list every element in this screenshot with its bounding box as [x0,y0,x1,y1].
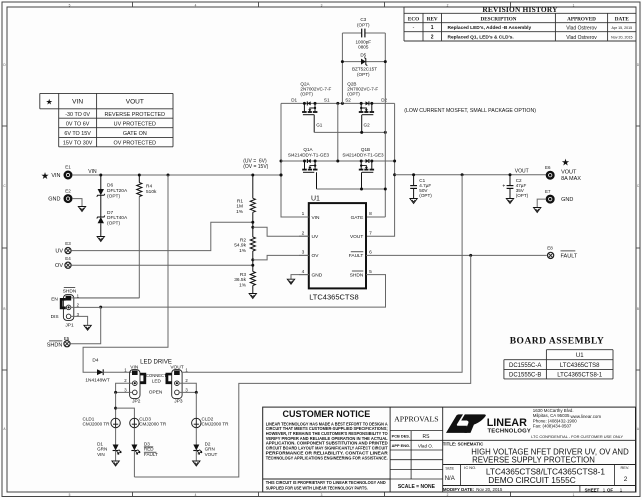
svg-text:IC NO.: IC NO. [464,465,476,470]
wire D1 to ground [115,451,117,462]
svg-text:BOARD ASSEMBLY: BOARD ASSEMBLY [510,337,605,347]
resistor R2 54.9k 1% [234,227,255,265]
revision history table [404,5,636,41]
svg-text:LINEAR: LINEAR [487,417,527,429]
svg-text:2: 2 [302,230,305,236]
svg-text:36.5k: 36.5k [234,277,246,283]
transistor Q1B Si4214DDY [342,147,384,189]
svg-text:Phone: (408)432-1900: Phone: (408)432-1900 [533,418,577,423]
node Q2 source taps [336,102,339,105]
svg-text:S2: S2 [345,97,351,102]
svg-text:GND: GND [312,272,323,278]
transistor Q1A Si4214DDY [288,147,330,189]
ground [84,325,91,330]
terminal E7 GND [545,189,573,203]
svg-text:DFLT40A: DFLT40A [107,215,128,221]
terminal E4 OV [55,256,71,269]
wire gate clamp left vertical [341,33,343,103]
svg-text:VIN: VIN [312,215,321,221]
board assembly table [504,337,613,379]
wire gate clamp right vertical [384,33,386,217]
svg-text:VOUT: VOUT [350,234,363,240]
svg-text:1: 1 [573,493,575,497]
wire VIN to Q1/U1 pin1 [281,103,309,217]
svg-text:TITLE: SCHEMATIC: TITLE: SCHEMATIC [443,442,484,447]
svg-text:DC1555C-B: DC1555C-B [509,372,541,378]
svg-text:3: 3 [321,493,323,497]
svg-text:D3: D3 [144,441,150,446]
svg-text:(OPT): (OPT) [419,193,432,198]
svg-text:LTC CONFIDENTIAL - FOR CUSTOME: LTC CONFIDENTIAL - FOR CUSTOMER USE ONLY [531,434,623,439]
wire OV E4 to divider [71,264,253,266]
svg-text:EN: EN [51,297,58,303]
wire D2 to ground [195,451,197,462]
svg-text:DATE: DATE [615,16,630,22]
ground [112,461,119,466]
svg-text:E7: E7 [545,189,551,194]
svg-text:VOUT: VOUT [515,169,529,175]
svg-text:E3: E3 [65,241,71,246]
svg-text:JP1: JP1 [65,322,74,328]
wire Q2 gate rail G1 G2 [314,131,385,133]
svg-text:DESCRIPTION: DESCRIPTION [480,16,516,22]
svg-text:D2: D2 [205,441,211,446]
node R1/R2 junction [251,221,254,224]
svg-text:Q1B: Q1B [361,147,370,152]
svg-text:G2: G2 [364,122,371,127]
svg-text:OPEN: OPEN [149,390,163,396]
svg-text:UV PROTECTED: UV PROTECTED [114,121,156,127]
svg-text:510k: 510k [146,189,157,195]
svg-text:FAULT: FAULT [144,452,158,457]
svg-text:VOUT: VOUT [170,364,183,370]
svg-text:D1: D1 [97,441,103,446]
svg-text:SHDN: SHDN [47,343,63,349]
svg-text:LTC4365CTS8-1: LTC4365CTS8-1 [557,372,603,378]
resistor R1 1M 1% [236,175,255,227]
svg-text:RED: RED [144,447,154,452]
svg-text:D4: D4 [92,358,98,364]
wire CLD3 to D3 [133,428,135,445]
svg-text:1N4148WT: 1N4148WT [85,377,109,383]
svg-text:DIS: DIS [51,314,59,320]
jumper JP1 [51,288,80,329]
svg-text:SHEET: SHEET [585,488,600,493]
wire D4 to JP2 pin1 [103,371,131,373]
svg-text:1630 McCarthy Blvd.: 1630 McCarthy Blvd. [533,408,574,413]
svg-text:2: 2 [431,35,434,41]
svg-text:(LOW CURRENT MOSFET, SMALL PAC: (LOW CURRENT MOSFET, SMALL PACKAGE OPTIO… [404,108,536,114]
svg-text:SHDN: SHDN [350,272,364,278]
svg-text:VOUT: VOUT [126,99,144,106]
svg-text:ECO: ECO [408,16,419,22]
svg-text:UV: UV [55,249,63,255]
svg-text:Apr 15, 2015: Apr 15, 2015 [612,26,633,30]
wire SHDN pin5 to JP1 [101,275,386,308]
wire JP2 pin3 [116,391,133,393]
svg-text:Nov 20, 2015: Nov 20, 2015 [476,487,503,492]
svg-text:APP ENG.: APP ENG. [392,443,411,448]
wire R4 to JP1 pin1 [74,297,140,299]
svg-text:VIN: VIN [88,169,97,175]
svg-text:5: 5 [69,493,71,497]
svg-text:-30 TO 0V: -30 TO 0V [65,112,90,118]
svg-text:D6: D6 [107,183,113,189]
wire CLD1 to D1 [115,428,117,445]
wire VIN rail [72,174,281,176]
svg-text:RS: RS [423,434,431,440]
svg-text:(OPT): (OPT) [107,220,120,226]
svg-text:SIZE: SIZE [445,466,454,471]
svg-text:N/A: N/A [445,476,455,482]
svg-text:Si4214DDY-T1-GE3: Si4214DDY-T1-GE3 [342,153,384,158]
title [443,442,629,465]
svg-text:LED: LED [152,378,162,383]
svg-text:7: 7 [369,230,372,236]
svg-text:LED DRIVE: LED DRIVE [140,360,172,366]
wire Q1 drain-source rail [281,160,395,162]
wire Q2 rail to VOUT vertical [366,103,395,236]
modify date / sheet [443,487,623,492]
svg-text:FAULT: FAULT [561,253,578,259]
diode D4 1N4148WT [85,358,109,384]
svg-text:LTC4365CTS8: LTC4365CTS8 [309,293,358,302]
svg-text:Replaced Q1, LED's & CLD's.: Replaced Q1, LED's & CLD's. [448,35,514,41]
wire JP1 pin1 [71,297,139,299]
svg-text:R4: R4 [146,184,152,190]
svg-text:CUSTOMER NOTICE: CUSTOMER NOTICE [282,409,370,419]
svg-text:(OPT): (OPT) [516,193,529,198]
terminal E5 SHDN [47,336,70,348]
svg-text:E5: E5 [64,336,70,341]
svg-text:D5: D5 [360,53,366,58]
wire LED VOUT column [195,392,197,418]
svg-text:R3: R3 [240,272,246,278]
wire E5 to SHDN [71,307,101,344]
wire JP2 pin2 [116,383,133,392]
wire LED VIN column [115,392,117,418]
svg-text:CMJ2000 TR: CMJ2000 TR [83,421,111,426]
wire U1 pin4 to ground [291,275,309,280]
customer notice [266,409,389,491]
svg-text:1: 1 [302,211,305,217]
wire CLD2 to D2 [195,428,197,445]
resistor R3 36.5k 1% [234,265,255,293]
capacitor C3 1000pF 0805 [342,17,385,50]
wire D7 to ground [100,223,102,236]
svg-text:TECHNOLOGY: TECHNOLOGY [488,429,532,435]
svg-text:DC1555C-A: DC1555C-A [509,363,541,369]
terminal E2 GND [48,188,71,202]
label CONNECT LED / OPEN [146,373,167,396]
svg-text:E2: E2 [65,188,71,193]
pin labels D1 S1 S2 D2 [291,97,387,102]
svg-text:GRN: GRN [205,447,215,452]
svg-text:1: 1 [431,25,434,31]
svg-text:B: B [637,307,639,311]
svg-text:D7: D7 [107,210,113,216]
diode CLD2 CMJ2000 [192,416,230,427]
svg-text:Vlad Ostrerov: Vlad Ostrerov [566,35,597,41]
svg-text:G1: G1 [316,122,323,127]
svg-text:E4: E4 [65,256,71,261]
wire D6 to D7 [100,195,102,217]
terminal E6 VOUT [545,158,581,182]
svg-text:SHDN: SHDN [63,288,77,294]
svg-text:MODIFY DATE:: MODIFY DATE: [443,487,475,492]
svg-text:PCB DES.: PCB DES. [392,433,410,438]
wire E2 to ground [72,199,82,207]
ground [534,208,541,213]
svg-text:VIN: VIN [51,173,60,179]
svg-text:★: ★ [41,171,50,182]
node Q1 source tap [336,160,339,163]
size / ic no / rev [445,465,630,485]
svg-text:S1: S1 [324,97,330,102]
svg-text:3: 3 [321,3,323,7]
capacitor C2 47uF 35V [502,175,528,199]
note UV OV thresholds [243,159,268,171]
svg-text:OV: OV [312,253,320,259]
LED D2 GRN VOUT [193,441,217,457]
transistor Q2B 2N7002VC-7-F [347,81,378,132]
svg-text:(OPT): (OPT) [107,193,120,199]
svg-text:APPROVED: APPROVED [567,16,596,22]
wire UV E3 to divider [71,222,253,250]
svg-text:(OPT): (OPT) [300,91,313,96]
terminal E1 VIN [41,165,72,182]
diode CLD3 CMJ2000 [130,416,167,427]
wire gate to U1 pin8 [366,216,385,218]
svg-text:(OPT): (OPT) [347,91,360,96]
wire UV tap to pin2 [253,227,309,236]
svg-text:R2: R2 [240,237,246,243]
svg-text:OF: OF [607,488,613,493]
capacitor C1 4.7uF 50V [410,175,432,199]
svg-text:CMJ2000 TR: CMJ2000 TR [202,421,230,426]
svg-text:OV: OV [55,263,63,269]
svg-text:1%: 1% [239,248,247,254]
svg-text:APPROVALS: APPROVALS [394,415,439,424]
svg-text:REV.: REV. [621,465,630,470]
svg-text:5: 5 [369,269,372,275]
approvals [392,415,439,490]
svg-text:REVISION HISTORY: REVISION HISTORY [482,5,558,14]
svg-text:GATE ON: GATE ON [123,131,147,137]
svg-text:U1: U1 [311,195,320,202]
svg-text:E1: E1 [65,165,71,170]
jumper JP2 [124,364,146,404]
diode D7 DFLT40A [97,210,128,227]
svg-text:GRN: GRN [97,447,107,452]
ground [97,237,104,242]
svg-text:Replaced LED's, Added -B Assem: Replaced LED's, Added -B Assembly [448,25,532,31]
wire JP1 pin3 to ground [71,316,88,325]
svg-text:VOUT: VOUT [561,169,577,175]
svg-text:D1: D1 [291,97,297,102]
svg-text:Nov 20, 2015: Nov 20, 2015 [611,35,632,39]
svg-text:CONNECT: CONNECT [146,373,167,378]
ground [78,207,85,212]
svg-text:JP2: JP2 [132,398,141,404]
ground [249,294,256,299]
svg-text:JP3: JP3 [174,398,183,404]
wire JP3 pin2 [180,383,196,392]
svg-text:BZT52C15T: BZT52C15T [352,67,377,72]
LED D1 GRN VIN [97,441,121,457]
op-amp U1 LTC4365CTS8 [299,195,372,301]
svg-text:Milpitas, CA 95035: Milpitas, CA 95035 [533,413,570,418]
wire D3 to FAULT [133,451,135,478]
svg-text:1M: 1M [236,204,243,210]
diode CLD1 CMJ2000 [83,416,121,427]
svg-text:D2: D2 [381,97,387,102]
wire Q2 source to Q1 source [337,103,339,161]
svg-text:1%: 1% [239,282,247,288]
svg-text:VOUT: VOUT [205,452,218,457]
svg-text:6V TO 15V: 6V TO 15V [64,131,91,137]
wire JP1 pin2 [71,306,101,308]
svg-text:54.9k: 54.9k [234,243,246,249]
svg-text:0805: 0805 [358,45,369,50]
svg-text:VIN: VIN [130,364,139,370]
svg-text:REVERSE SUPPLY PROTECTION: REVERSE SUPPLY PROTECTION [472,456,595,465]
svg-text:Vlad O.: Vlad O. [418,443,433,448]
wire VIN to LED drive [83,175,168,372]
ground [287,279,294,284]
ground [193,461,200,466]
svg-text:★: ★ [46,97,53,106]
svg-text:U1: U1 [576,353,584,359]
svg-text:REV: REV [427,16,438,22]
svg-text:SUPPLIED FOR USE WITH LINEAR T: SUPPLIED FOR USE WITH LINEAR TECHNOLOGY … [266,485,368,490]
ground [410,199,417,204]
svg-text:8A MAX: 8A MAX [561,176,581,182]
zener D5 BZT52C15T [341,53,387,78]
svg-text:Si4214DDY-T1-GE3: Si4214DDY-T1-GE3 [288,153,330,158]
transistor Q2A 2N7002VC-7-F [300,81,331,132]
svg-text:LTC4365CTS8: LTC4365CTS8 [560,363,600,369]
title block [263,407,636,492]
svg-text:E6: E6 [545,165,551,170]
wire E7 to ground [537,199,546,207]
svg-text:DEMO CIRCUIT 1555C: DEMO CIRCUIT 1555C [488,475,575,485]
svg-text:C3: C3 [360,17,366,22]
terminal E8 FAULT [547,246,578,260]
resistor R4 510k [137,175,157,298]
svg-text:2: 2 [624,476,628,483]
wire FAULT to LED D3 [134,255,470,477]
svg-text:SCALE = NONE: SCALE = NONE [398,484,436,490]
wire Q2 drain-source rail [281,102,395,104]
wire VOUT rail [395,174,547,176]
svg-text:1000pF: 1000pF [356,39,372,44]
svg-text:(OPT): (OPT) [357,22,370,27]
svg-text:(OV = 15V): (OV = 15V) [243,164,268,170]
svg-text:REVERSE PROTECTED: REVERSE PROTECTED [105,112,166,118]
svg-text:B: B [3,307,5,311]
svg-text:5: 5 [69,3,71,7]
svg-text:3: 3 [302,250,305,256]
svg-text:6: 6 [369,250,372,256]
svg-text:8: 8 [369,211,372,217]
svg-text:0V TO 6V: 0V TO 6V [66,121,90,127]
svg-text:CMJ2000 TR: CMJ2000 TR [139,421,167,426]
ground [506,199,513,204]
svg-text:Fax: (408)434-0507: Fax: (408)434-0507 [533,424,572,429]
wire Q1 gate rail [317,188,386,190]
svg-text:OV PROTECTED: OV PROTECTED [114,140,157,146]
svg-text:GATE: GATE [351,215,364,221]
svg-text:E8: E8 [547,246,553,251]
linear technology logo [446,408,624,439]
jumper JP3 [166,364,189,404]
svg-text:UV: UV [312,234,319,240]
svg-text:2: 2 [447,493,449,497]
svg-text:FAULT: FAULT [349,253,364,259]
svg-text:GND: GND [561,197,573,203]
node R2/R3 junction [251,258,254,261]
svg-text:4: 4 [302,269,305,275]
terminal E3 UV [55,241,71,254]
svg-text:DFLT20A: DFLT20A [107,188,128,194]
VIN/VOUT protection table [40,93,173,146]
svg-text:15V TO 30V: 15V TO 30V [63,140,93,146]
wire JP3 pin1 to VOUT [182,175,462,372]
LED D3 RED FAULT [131,441,158,457]
svg-text:Q1A: Q1A [303,147,313,152]
wire branch to CLD3 [116,408,135,418]
svg-text:TECHNOLOGY APPLICATIONS ENGINE: TECHNOLOGY APPLICATIONS ENGINEERING FOR … [266,455,388,460]
svg-text:Vlad Ostrerov: Vlad Ostrerov [566,25,597,31]
wire JP3 pin3 [180,391,196,393]
svg-text:VIN: VIN [72,99,83,106]
svg-text:4: 4 [195,493,197,497]
svg-text:GND: GND [48,197,60,203]
svg-text:1%: 1% [236,209,244,215]
svg-text:VIN: VIN [97,452,105,457]
svg-text:(OPT): (OPT) [357,72,370,77]
svg-text:4: 4 [195,3,197,7]
wire FAULT rail [366,254,547,256]
wire OV tap to pin3 [253,255,309,260]
svg-text:R1: R1 [237,198,243,204]
diode D6 DFLT20A [97,175,128,199]
svg-text:+: + [502,184,505,190]
svg-text:★: ★ [561,158,570,169]
